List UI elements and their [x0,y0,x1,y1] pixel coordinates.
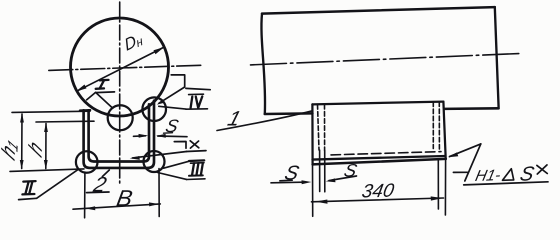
hidden line left plate far face [324,105,326,151]
svg-text:h1: h1 [0,132,21,166]
arrowhead x leader [130,156,140,160]
arrowhead S left pointing right [139,134,149,138]
shared bottom extension line for h and h1 [10,169,84,172]
svg-text:Dн: Dн [122,28,144,55]
hidden line left plate near face [318,105,320,150]
weld callout circle III at bottom-right corner [144,151,165,172]
dimension B right extension line [158,169,160,217]
weld flag slanted line [465,144,481,181]
arrowhead h down [44,160,48,170]
arrowhead Dn lower-left [76,85,87,92]
hidden line of bottom plate (dashed) [331,152,441,155]
arrowhead S right pointing left [156,134,166,138]
weld symbol leader arrow at saddle corner [448,152,458,157]
horizontal centerline of pipe (front view) [49,65,203,70]
label II (roman numeral) [19,181,37,200]
leader IV from underline to weld point [159,106,186,109]
weld callout circle at pipe bottom [108,105,133,130]
pipe bottom edge left segment [265,112,313,115]
saddle right edge (side view) [443,102,445,159]
svg-text:Н1-: Н1- [474,167,503,185]
dimension line B [73,204,160,209]
weld symbol fillet triangle [503,169,514,181]
leader III lower to bottom-right callout circle [158,173,187,180]
weld designation shelf under text [464,182,548,185]
arrowhead B left [85,206,95,210]
underline of label S (front) [164,132,173,135]
vertical centerline of pipe (front view) [119,2,121,186]
label I (roman numeral) [95,80,114,93]
corner bracket near IV [171,75,185,87]
weld designation superscript x [537,165,547,174]
arrowhead h1 up [20,113,24,123]
label IV (roman numeral) with shelf [186,88,210,109]
bottom plate lower line (side view) [313,159,446,165]
dimension s right arrow [329,176,357,181]
dimension s left arrow [271,181,303,184]
dimension h top extension line [36,120,94,123]
leader 2 to bottom plate [102,170,109,177]
arrowhead Dn upper-right [154,47,165,54]
left wall top cap [80,109,90,112]
bottom plate upper line (side view) [313,156,446,160]
dimension line h [45,124,47,169]
saddle outer contour (front view) [84,101,154,168]
dimension line h1 [21,114,23,169]
leader I to callout circle [96,92,113,108]
leader III upper to bottom-right callout circle [164,161,189,168]
extension lines below left plate for s [319,150,321,192]
svg-text:h: h [26,136,46,162]
dimension line 340 [312,198,444,202]
pipe top edge (side view) [262,7,495,14]
weld callout circle IV at right wall top [142,97,166,121]
dimension h1 top extension line [12,111,90,112]
leader I to pipe/left-wall weld [87,93,96,100]
pipe left break edge (side view) [261,14,265,114]
arrowhead 340 right [431,196,443,200]
leader x into saddle interior [133,152,187,158]
label III (roman numeral) [187,160,206,179]
hidden line right plate near face [432,102,434,149]
leader IV from corner bracket to weld point [159,87,185,103]
corner bracket and label x [174,142,186,149]
weld leader line [450,144,481,157]
arrowhead h up [44,122,48,132]
label x [190,141,199,148]
arrowhead B right [149,202,159,206]
extension line below left edge for 340 [312,164,314,216]
pipe circle Dn (front view) [71,18,169,116]
underline of label x [187,150,207,153]
weld flag short shelf [453,171,467,173]
dimension B left extension line [84,172,86,218]
pipe axis centerline (side view) [251,53,523,65]
saddle top edge (side view) [312,102,443,105]
thickness dimension S (front view) [134,135,146,138]
leader II to bottom-left callout circle [37,170,78,199]
leader 1 to saddle [217,111,312,131]
arrowhead 340 left [315,200,328,204]
saddle left edge (side view) [311,104,313,163]
extension line below right edge [444,160,446,216]
weld callout circle II at bottom-left corner [76,151,98,173]
arrowhead h1 down [20,160,24,170]
pipe bottom edge right segment [445,107,499,110]
saddle inner contour (front view) [89,104,149,161]
svg-text:B: B [115,185,135,211]
svg-text:S: S [164,115,181,136]
diameter line Dn [78,48,164,91]
arrowhead IV weld point [157,99,165,104]
svg-text:340: 340 [360,181,396,203]
hidden line right plate far face [438,102,440,149]
pipe right edge (side view) [495,7,499,107]
extension line below right dashed pair [437,160,439,209]
